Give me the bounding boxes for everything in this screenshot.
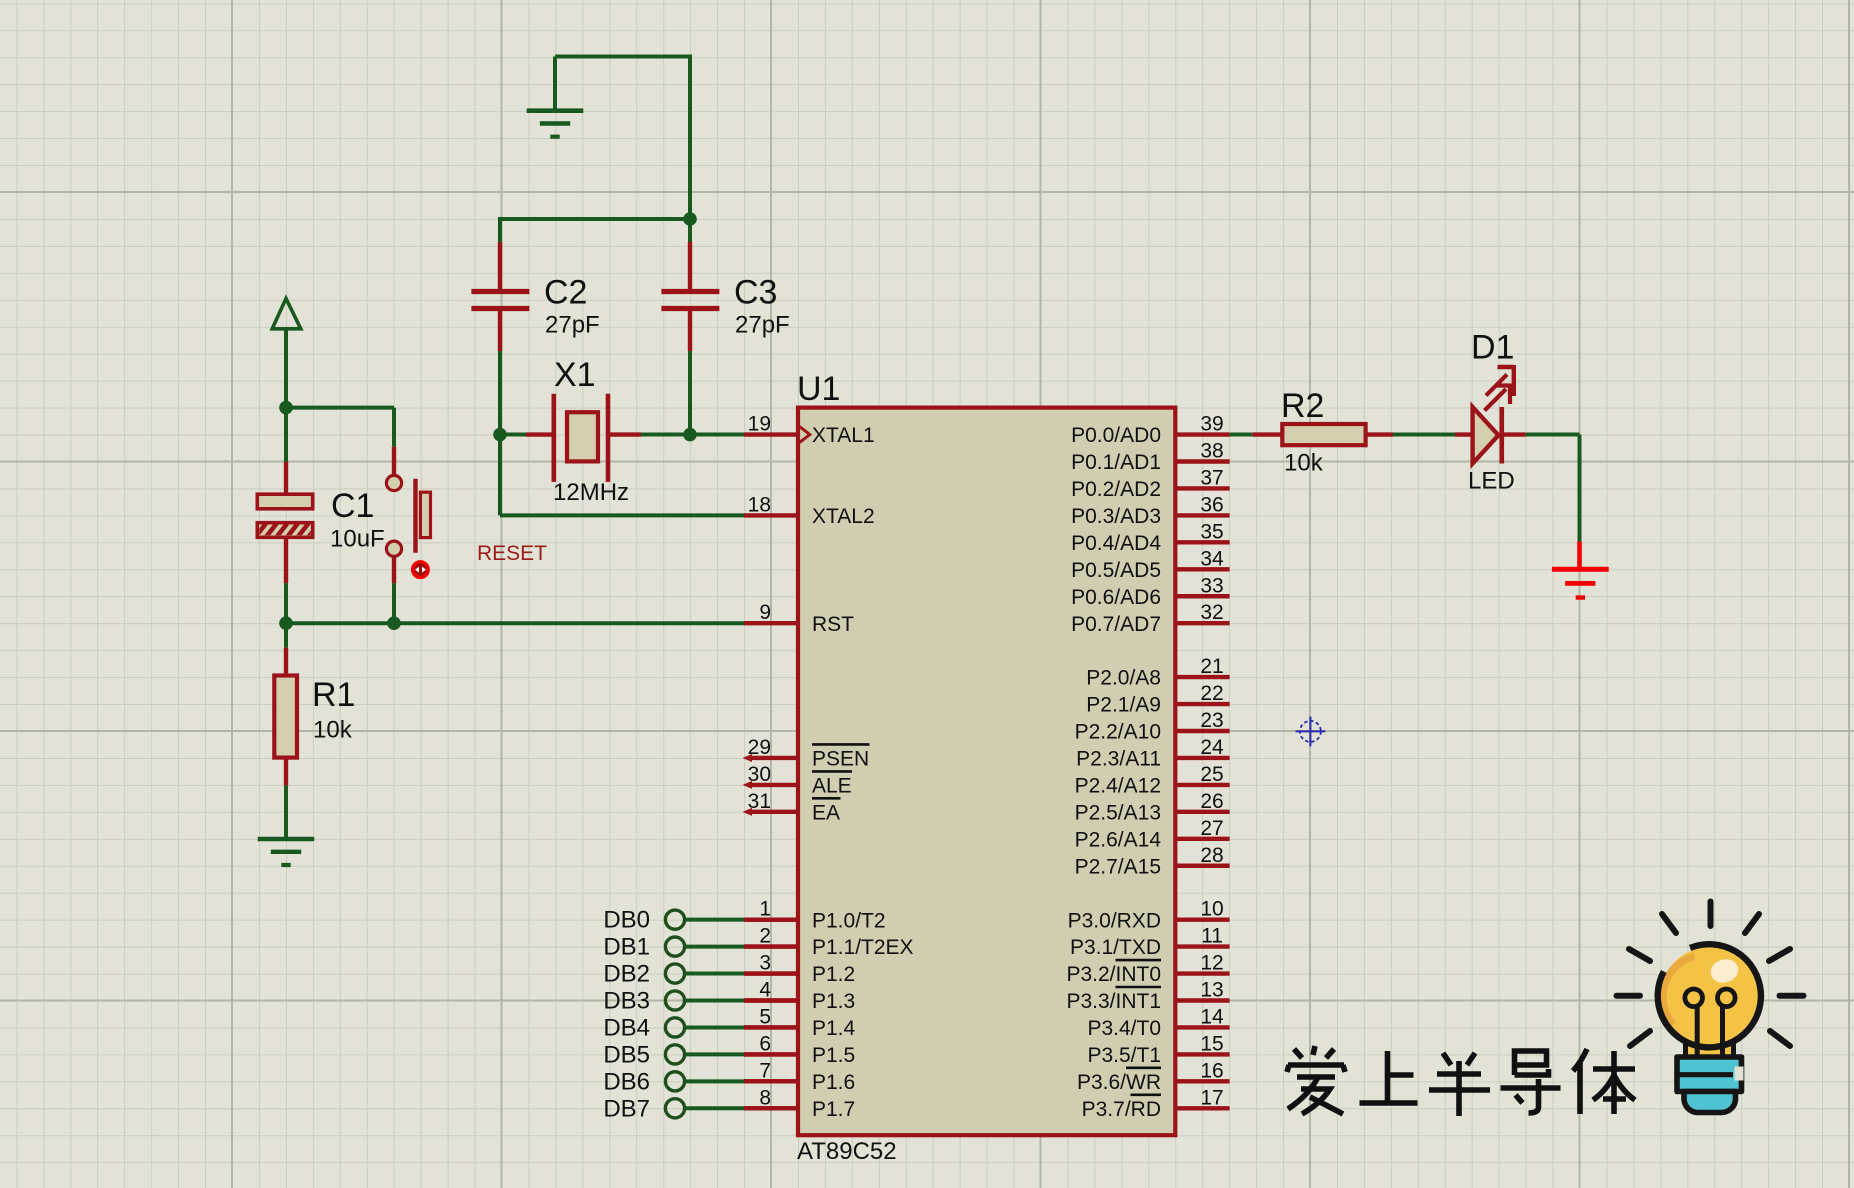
svg-text:16: 16 xyxy=(1200,1059,1223,1082)
svg-text:P3.4/T0: P3.4/T0 xyxy=(1087,1017,1161,1040)
svg-text:DB3: DB3 xyxy=(603,988,650,1015)
svg-text:29: 29 xyxy=(748,736,771,759)
svg-text:27: 27 xyxy=(1200,817,1223,840)
svg-text:PSEN: PSEN xyxy=(812,748,869,771)
svg-text:U1: U1 xyxy=(797,370,840,408)
svg-text:RESET: RESET xyxy=(477,542,547,565)
svg-text:38: 38 xyxy=(1200,440,1223,463)
svg-text:P0.0/AD0: P0.0/AD0 xyxy=(1071,424,1161,447)
svg-text:26: 26 xyxy=(1200,790,1223,813)
svg-text:30: 30 xyxy=(748,763,771,786)
svg-text:C3: C3 xyxy=(734,274,777,312)
svg-text:10: 10 xyxy=(1200,898,1223,921)
svg-text:14: 14 xyxy=(1200,1005,1224,1028)
svg-text:2: 2 xyxy=(759,925,771,948)
svg-text:37: 37 xyxy=(1200,466,1223,489)
svg-text:12MHz: 12MHz xyxy=(553,479,629,506)
svg-text:10uF: 10uF xyxy=(330,526,385,553)
svg-text:4: 4 xyxy=(759,979,771,1002)
svg-text:P3.1/TXD: P3.1/TXD xyxy=(1070,936,1161,959)
svg-text:P3.2/INT0: P3.2/INT0 xyxy=(1066,963,1161,986)
svg-text:P0.1/AD1: P0.1/AD1 xyxy=(1071,451,1161,474)
svg-text:24: 24 xyxy=(1200,736,1224,759)
svg-text:P2.2/A10: P2.2/A10 xyxy=(1075,721,1161,744)
svg-text:EA: EA xyxy=(812,801,840,824)
svg-text:P2.7/A15: P2.7/A15 xyxy=(1075,855,1161,878)
svg-text:8: 8 xyxy=(759,1086,771,1109)
svg-text:P0.3/AD3: P0.3/AD3 xyxy=(1071,505,1161,528)
svg-text:7: 7 xyxy=(759,1059,771,1082)
svg-text:DB6: DB6 xyxy=(603,1068,650,1095)
svg-text:15: 15 xyxy=(1200,1032,1223,1055)
svg-text:P2.0/A8: P2.0/A8 xyxy=(1086,667,1161,690)
svg-text:18: 18 xyxy=(748,493,771,516)
svg-text:13: 13 xyxy=(1200,979,1223,1002)
svg-text:12: 12 xyxy=(1200,952,1223,975)
svg-text:10k: 10k xyxy=(313,717,353,744)
svg-text:P3.7/RD: P3.7/RD xyxy=(1082,1098,1161,1121)
svg-text:31: 31 xyxy=(748,790,771,813)
svg-text:1: 1 xyxy=(759,898,771,921)
svg-text:P0.7/AD7: P0.7/AD7 xyxy=(1071,613,1161,636)
svg-text:33: 33 xyxy=(1200,574,1223,597)
svg-text:21: 21 xyxy=(1200,655,1223,678)
svg-text:P3.0/RXD: P3.0/RXD xyxy=(1068,909,1161,932)
svg-text:P1.4: P1.4 xyxy=(812,1017,856,1040)
svg-text:DB7: DB7 xyxy=(603,1095,650,1122)
svg-text:P3.6/WR: P3.6/WR xyxy=(1077,1071,1161,1094)
svg-text:DB0: DB0 xyxy=(603,907,650,934)
svg-text:11: 11 xyxy=(1201,925,1223,948)
svg-text:P0.4/AD4: P0.4/AD4 xyxy=(1071,532,1161,555)
svg-text:23: 23 xyxy=(1200,709,1223,732)
svg-text:AT89C52: AT89C52 xyxy=(797,1138,897,1165)
svg-text:C1: C1 xyxy=(331,487,374,525)
svg-text:P1.6: P1.6 xyxy=(812,1071,855,1094)
svg-text:36: 36 xyxy=(1200,493,1223,516)
svg-text:P2.4/A12: P2.4/A12 xyxy=(1075,775,1161,798)
svg-text:19: 19 xyxy=(748,413,771,436)
svg-text:DB4: DB4 xyxy=(603,1014,650,1041)
svg-text:5: 5 xyxy=(759,1005,771,1028)
svg-text:D1: D1 xyxy=(1471,328,1514,366)
svg-text:DB2: DB2 xyxy=(603,961,650,988)
svg-text:34: 34 xyxy=(1200,547,1224,570)
svg-text:P1.7: P1.7 xyxy=(812,1098,855,1121)
svg-text:39: 39 xyxy=(1200,413,1223,436)
svg-text:C2: C2 xyxy=(544,274,587,312)
svg-text:P2.1/A9: P2.1/A9 xyxy=(1086,694,1161,717)
svg-text:LED: LED xyxy=(1468,468,1515,495)
svg-text:XTAL2: XTAL2 xyxy=(812,505,875,528)
svg-text:P0.5/AD5: P0.5/AD5 xyxy=(1071,559,1161,582)
svg-text:XTAL1: XTAL1 xyxy=(812,424,875,447)
svg-text:9: 9 xyxy=(759,601,771,624)
svg-text:ALE: ALE xyxy=(812,775,852,798)
svg-text:P1.3: P1.3 xyxy=(812,990,855,1013)
svg-text:P0.2/AD2: P0.2/AD2 xyxy=(1071,478,1161,501)
svg-text:DB5: DB5 xyxy=(603,1041,650,1068)
svg-text:P2.5/A13: P2.5/A13 xyxy=(1075,801,1161,824)
svg-text:R1: R1 xyxy=(312,676,355,714)
svg-text:10k: 10k xyxy=(1284,450,1324,477)
svg-text:6: 6 xyxy=(759,1032,771,1055)
svg-text:P1.0/T2: P1.0/T2 xyxy=(812,909,886,932)
svg-text:P1.2: P1.2 xyxy=(812,963,855,986)
svg-text:DB1: DB1 xyxy=(603,934,650,961)
svg-text:P0.6/AD6: P0.6/AD6 xyxy=(1071,586,1161,609)
svg-text:P1.5: P1.5 xyxy=(812,1044,855,1067)
svg-text:27pF: 27pF xyxy=(735,312,790,339)
svg-text:P1.1/T2EX: P1.1/T2EX xyxy=(812,936,914,959)
svg-text:25: 25 xyxy=(1200,763,1223,786)
svg-text:P3.5/T1: P3.5/T1 xyxy=(1087,1044,1161,1067)
svg-text:17: 17 xyxy=(1200,1086,1223,1109)
svg-text:P3.3/INT1: P3.3/INT1 xyxy=(1066,990,1161,1013)
svg-text:28: 28 xyxy=(1200,844,1223,867)
svg-text:R2: R2 xyxy=(1281,387,1324,425)
svg-text:35: 35 xyxy=(1200,520,1223,543)
svg-text:P2.3/A11: P2.3/A11 xyxy=(1076,748,1161,771)
svg-text:RST: RST xyxy=(812,613,854,636)
svg-text:X1: X1 xyxy=(554,356,596,394)
svg-text:22: 22 xyxy=(1200,682,1223,705)
svg-text:3: 3 xyxy=(759,952,771,975)
svg-text:32: 32 xyxy=(1200,601,1223,624)
svg-text:P2.6/A14: P2.6/A14 xyxy=(1075,828,1162,851)
svg-text:27pF: 27pF xyxy=(545,312,600,339)
